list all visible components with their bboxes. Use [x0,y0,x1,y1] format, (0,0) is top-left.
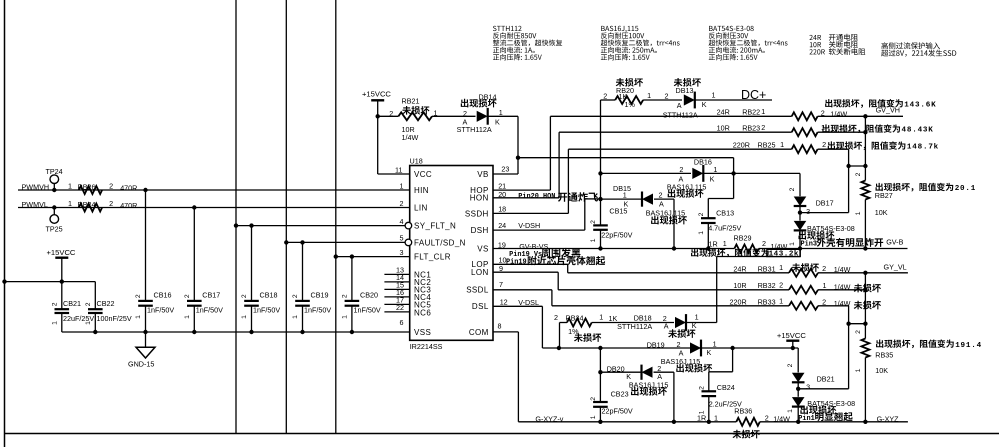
svg-text:5: 5 [400,234,404,243]
wire VS GV-B row [493,248,734,250]
svg-text:STTH112A: STTH112A [457,125,492,134]
svg-text:1: 1 [590,238,597,242]
svg-text:+15VCC: +15VCC [362,90,391,99]
svg-text:1: 1 [400,181,404,190]
svg-text:1: 1 [855,368,862,372]
svg-text:1: 1 [823,281,827,290]
svg-text:2: 2 [590,397,597,401]
svg-text:COM: COM [469,328,489,337]
capacitor CB24 2.2uF/25V branch [732,348,734,372]
resistor RB36 1R 1/4W [736,418,760,426]
bubble pin5 active low [405,239,412,246]
node DB16 cathode junction [731,171,735,175]
svg-text:CB24: CB24 [717,383,735,392]
resistor RB20 1K 1% [601,99,616,101]
svg-text:1/4W: 1/4W [834,283,851,292]
svg-text:470R: 470R [120,183,137,192]
svg-text:CB13: CB13 [716,208,734,217]
svg-text:2: 2 [822,264,826,273]
svg-text:CB20: CB20 [360,291,378,300]
wire HON to RB23 [493,197,559,199]
svg-text:191.4: 191.4 [955,342,982,350]
label RB22 damaged 143.6K [825,99,832,107]
svg-text:1: 1 [135,315,142,319]
svg-text:LON: LON [471,268,489,277]
capacitor CB17 1nF/50V [193,208,195,301]
svg-text:RB25: RB25 [758,141,776,150]
svg-text:1: 1 [499,108,503,117]
node GY_VL junction [863,271,867,275]
svg-text:10R: 10R [717,124,730,133]
svg-text:22: 22 [396,303,404,312]
svg-text:2: 2 [389,109,393,118]
diode DB20 BAS16J,115 [600,371,641,373]
wire DB20 anode down [673,372,675,422]
svg-text:DC+: DC+ [741,88,766,102]
svg-text:1nF/50V: 1nF/50V [253,305,280,314]
svg-text:10K: 10K [875,208,888,217]
svg-text:1nF/50V: 1nF/50V [147,305,174,314]
svg-text:1: 1 [780,140,784,149]
resistor RB21 10R 1/4W [378,115,399,117]
resistor RB23 10R 1/4W [792,128,818,136]
wire +15VCC rail [5,281,96,283]
capacitor CB13 4.7uF/25V branch [733,173,735,198]
wire vertical bus FLT_CLR (to page edge) [335,0,337,434]
svg-text:2: 2 [135,294,142,298]
svg-text:1: 1 [713,165,717,174]
label RB31 not damaged [792,263,801,272]
svg-text:RB33: RB33 [758,297,776,306]
svg-text:CB23: CB23 [611,390,629,399]
wire G-XYZ-v row [518,421,736,423]
svg-text:RB27: RB27 [875,191,893,200]
svg-text:CB19: CB19 [311,291,329,300]
svg-text:GND-15: GND-15 [128,359,154,368]
svg-text:22pF/50V: 22pF/50V [601,231,632,240]
resistor RB25 220R 1/4W [792,145,818,153]
box around 143.2k [767,249,801,256]
label DB19 damaged [676,364,684,373]
label RB33 not damaged [854,301,863,310]
power +15VCC (top) [371,99,384,101]
wire DB14 cathode down to VB node [517,116,519,174]
svg-text:1: 1 [623,190,627,199]
svg-text:2: 2 [292,294,299,298]
svg-text:+15VCC: +15VCC [777,331,806,340]
svg-text:1: 1 [85,321,92,325]
label RB36 not damaged [732,430,741,439]
svg-text:RB24: RB24 [78,200,96,209]
svg-text:48.43K: 48.43K [902,127,934,135]
label RB20 not damaged [616,78,625,87]
svg-text:CB15: CB15 [609,207,627,216]
svg-text:LIN: LIN [414,203,428,212]
svg-text:1: 1 [68,181,72,190]
svg-text:2: 2 [241,294,248,298]
diode DB13 STTH112A [684,94,695,105]
svg-text:1: 1 [723,239,727,248]
svg-text:23: 23 [501,165,509,174]
power +15VCC (low side) [786,340,799,342]
svg-text:2: 2 [463,109,467,118]
svg-text:RB29: RB29 [734,234,752,243]
svg-text:1/4W: 1/4W [834,265,851,274]
svg-text:V-DSL: V-DSL [518,298,539,307]
border bottom bus line [5,433,999,435]
svg-text:2: 2 [342,294,349,298]
svg-text:2: 2 [603,92,607,101]
svg-text:10K: 10K [875,366,888,375]
svg-text:4.7uF/25V: 4.7uF/25V [708,223,741,232]
label DB14 damaged [461,99,469,108]
svg-text:143.6K: 143.6K [904,101,936,109]
svg-text:CB16: CB16 [154,291,172,300]
net GV_VH [865,115,903,117]
wire VSS ground rail [62,331,410,333]
note column STTH112 description [493,26,497,31]
node GV_VH junction [863,114,867,118]
svg-text:1: 1 [855,211,862,215]
svg-text:FAULT/SD_N: FAULT/SD_N [414,238,466,247]
svg-text:1: 1 [241,315,248,319]
node VCC junction [376,114,380,118]
svg-text:CB18: CB18 [260,291,278,300]
svg-text:SY_FLT_N: SY_FLT_N [414,222,456,231]
ground GND-15 [145,332,147,347]
svg-text:1: 1 [68,199,72,208]
capacitor CB22 100nF/25V [94,282,96,310]
svg-text:K: K [495,118,500,127]
node HIN filter junction [143,188,147,192]
svg-text:1: 1 [342,315,349,319]
note column BAT54S-E3-08 description [709,26,713,31]
svg-text:18: 18 [498,205,506,214]
svg-text:1nF/50V: 1nF/50V [304,305,331,314]
svg-text:SSDL: SSDL [466,286,489,295]
svg-text:1/4W: 1/4W [773,415,790,424]
capacitor CB16 1nF/50V [145,190,147,301]
net GY_VL [865,272,908,274]
svg-text:2: 2 [590,220,597,224]
svg-text:1: 1 [599,313,603,322]
wire PWMVL to LIN [18,207,410,209]
diode DB15 BAS16J,115 [601,198,643,200]
svg-text:RB31: RB31 [758,265,776,274]
wire DB17 pin3 to bridge [800,212,849,214]
label RB27 damaged 20.1 [876,183,883,191]
label DB13 not damaged [674,78,683,87]
svg-text:1: 1 [779,263,783,272]
wire VB row to DB16 branch [518,157,734,159]
svg-text:2: 2 [665,92,669,101]
svg-text:1: 1 [789,242,796,246]
svg-text:2: 2 [789,187,796,191]
svg-text:2: 2 [109,181,113,190]
svg-text:V-DSH: V-DSH [518,221,540,230]
op-amp U18 IR2214SS gate driver IC body [410,166,493,341]
svg-text:A: A [664,322,669,331]
svg-text:3: 3 [806,207,810,216]
wire DSH node vertical [600,100,602,225]
svg-text:STTH112A: STTH112A [617,322,652,331]
svg-text:G-XYZ: G-XYZ [877,414,900,423]
wire HOP to RB22 [493,189,550,191]
svg-text:1: 1 [292,315,299,319]
svg-text:2: 2 [779,281,783,290]
svg-text:1nF/50V: 1nF/50V [354,305,381,314]
svg-text:2: 2 [52,302,59,306]
svg-text:1: 1 [714,413,718,422]
wire SSDH to RB25 [493,212,568,214]
resistor RB27 10K [861,181,869,200]
power +15VCC (left) [55,257,68,259]
svg-text:Pin19: Pin19 [506,259,527,267]
svg-text:K: K [702,100,707,109]
capacitor CB19 1nF/50V [300,240,304,244]
svg-text:RB21: RB21 [402,97,420,106]
resistor RB22 24R 1/4W [792,112,818,120]
wire GV-B row right [800,248,908,250]
svg-text:DB20: DB20 [607,365,625,374]
svg-text:RB32: RB32 [758,281,776,290]
svg-text:100nF/25V: 100nF/25V [97,314,132,323]
svg-text:SSDH: SSDH [465,209,489,218]
svg-text:2: 2 [765,413,769,422]
svg-text:220R: 220R [730,297,747,306]
svg-text:24: 24 [498,221,506,230]
svg-text:DB13: DB13 [676,86,694,95]
wire DB21 pin3 to A' [798,388,848,390]
label DB20 damaged [631,387,639,396]
svg-text:U18: U18 [410,157,423,166]
svg-text:148.7k: 148.7k [907,144,939,152]
svg-text:20.1: 20.1 [955,185,976,193]
node RB32 junction [863,288,867,292]
wire LON staircase [493,271,558,273]
diode DB19 BAS16J,115 [690,342,701,353]
note gate resistor roles [809,35,812,40]
svg-text:NC6: NC6 [414,308,431,317]
svg-text:1R: 1R [709,240,718,249]
svg-text:470R: 470R [120,201,137,210]
label DB17 damaged [798,231,806,240]
label DB16 damaged [668,189,676,198]
svg-text:GV-B-VS: GV-B-VS [519,242,548,251]
svg-text:STTH112A: STTH112A [663,111,698,120]
svg-text:2: 2 [822,140,826,149]
svg-text:143.2k: 143.2k [769,251,799,259]
svg-text:DB17: DB17 [816,199,834,208]
diode DB16 BAS16J,115 [601,172,692,174]
svg-text:2: 2 [698,212,705,216]
svg-text:3: 3 [400,248,404,257]
svg-text:VCC: VCC [414,170,432,179]
svg-text:CB22: CB22 [97,299,115,308]
wire DSH staircase [493,229,585,231]
svg-text:DB19: DB19 [647,341,665,350]
svg-text:RB36: RB36 [734,407,752,416]
svg-text:GV-B: GV-B [886,238,903,247]
svg-text:24R: 24R [733,265,746,274]
svg-text:2: 2 [787,363,794,367]
capacitor CB15 22pF/50V [593,224,608,226]
svg-text:RB23: RB23 [742,124,760,133]
svg-text:1: 1 [647,91,651,100]
wire DB15 anode down to VS row [673,199,675,248]
resistor RB26 470R [79,186,102,194]
svg-text:2: 2 [554,313,558,322]
wire G-XYZ row right [798,421,908,423]
resistor RB29 1R 1/4W [734,245,758,253]
svg-text:12: 12 [500,297,508,306]
svg-text:2: 2 [855,172,862,176]
svg-text:2: 2 [855,330,862,334]
svg-text:Pin19 Vs: Pin19 Vs [509,251,542,259]
svg-text:Pin20 HON: Pin20 HON [518,193,555,201]
capacitor CB20 1nF/50V [350,254,354,258]
svg-text:DSH: DSH [471,226,489,235]
svg-text:1/4W: 1/4W [830,110,847,119]
wire COM down to G-XYZ-v [493,331,518,333]
label RB32 not damaged [854,284,863,293]
wire SSDL staircase [493,289,552,291]
svg-text:2: 2 [822,297,826,306]
svg-text:RB35: RB35 [875,351,893,360]
diode DB17 BAT54S-E3-08 dual [799,173,801,196]
svg-text:CB17: CB17 [202,291,220,300]
capacitor CB23 22pF/50V branch [599,348,601,402]
svg-text:DSL: DSL [472,302,489,311]
svg-text:K: K [710,174,715,183]
note column BAS16J,115 description [601,26,605,31]
svg-text:CB21: CB21 [63,299,81,308]
svg-text:1: 1 [761,107,765,116]
svg-text:1: 1 [779,296,783,305]
svg-text:IR2214SS: IR2214SS [410,342,443,351]
resistor RB32 10R 1/4W [789,286,818,294]
svg-text:Pin3: Pin3 [801,241,818,249]
svg-text:RB26: RB26 [78,182,96,191]
svg-text:2: 2 [698,386,705,390]
wire DB19 supply row [542,347,798,349]
svg-text:RB34: RB34 [566,314,584,323]
svg-text:2: 2 [400,199,404,208]
svg-text:TP25: TP25 [46,224,63,233]
svg-text:2: 2 [85,302,92,306]
label RB21 not damaged [402,106,411,115]
wire RB25 to bridge [848,149,850,212]
test point TP24 [50,175,59,184]
label DB18 not damaged [668,329,677,338]
svg-text:1R: 1R [697,414,706,423]
wire SY_FLT_N from bus to pin 4 [234,223,238,227]
svg-text:1nF/50V: 1nF/50V [196,305,223,314]
svg-text:FLT_CLR: FLT_CLR [414,253,451,262]
wire U18 VB pin [493,173,518,175]
label DB15 damaged [651,216,659,225]
svg-text:GV_VH: GV_VH [876,105,900,114]
svg-text:HIN: HIN [414,186,429,195]
svg-text:11: 11 [395,165,402,174]
svg-text:1: 1 [695,313,699,322]
label RB29 damaged 143.2k [691,249,698,257]
wire VCC node down to U18 VCC pin [377,116,379,174]
label RB23 damaged 48.43K [822,124,829,132]
capacitor CB18 1nF/50V [249,223,253,227]
svg-text:1: 1 [590,415,597,419]
resistor RB33 220R 1/4W [789,302,818,310]
wire RB33 to bridge A' [848,306,850,389]
label RB34 not damaged [574,333,583,342]
svg-text:2: 2 [109,199,113,208]
border left edge [4,0,6,447]
svg-text:1%: 1% [625,100,636,109]
wire FAULT/SD_N from bus to pin 5 [284,240,288,244]
diode DB18 STTH112A [675,317,686,328]
svg-text:3: 3 [806,383,810,392]
svg-text:1/4W: 1/4W [402,133,419,142]
note high-side overcurrent [881,42,887,49]
node VB junction [516,156,520,160]
resistor RB35 10K [861,339,869,358]
svg-text:A: A [659,199,664,208]
test point TP25 [50,215,59,224]
svg-text:2: 2 [821,108,825,117]
label RB25 damaged 148.7k [828,141,835,149]
svg-text:DB21: DB21 [817,374,835,383]
svg-text:2: 2 [659,190,663,199]
svg-text:VSS: VSS [414,328,431,337]
wire DB18 cathode return to GV-B [799,249,801,257]
svg-text:1: 1 [787,409,794,413]
svg-text:+15VCC: +15VCC [47,248,76,257]
svg-text:1: 1 [712,90,716,99]
label DB21 damaged [800,406,808,415]
svg-text:GY_VL: GY_VL [884,262,907,271]
svg-text:22pF/50V: 22pF/50V [602,407,633,416]
wire LOP staircase [493,263,568,265]
svg-text:VS: VS [477,244,488,253]
svg-text:6: 6 [400,318,404,327]
wire vertical bus SY_FLT_N (to page edge) [235,0,237,434]
svg-text:TP24: TP24 [46,167,63,176]
svg-text:VB: VB [477,170,488,179]
wire DB16 cathode to DB17 [734,172,800,174]
wire vertical bus FAULT/SD_N (to page edge) [285,0,287,434]
svg-text:24R: 24R [717,108,730,117]
diode DB21 BAT54S-E3-08 dual [797,348,799,372]
svg-text:HON: HON [470,194,489,203]
node RB23 GV_VH junction [863,130,867,134]
wire FLT_CLR from bus to pin 3 [334,254,338,258]
wire DSL staircase to V-DSL [493,305,542,307]
svg-text:DB16: DB16 [694,158,712,167]
svg-text:8: 8 [498,321,502,330]
svg-text:2: 2 [762,239,766,248]
svg-text:7: 7 [499,280,503,289]
svg-text:1: 1 [52,321,59,325]
svg-text:A: A [677,101,682,110]
svg-text:1: 1 [184,315,191,319]
wire PWMVH to HIN [18,189,410,191]
resistor RB31 24R 1/4W [789,269,818,277]
svg-text:10R: 10R [733,281,746,290]
svg-text:220R: 220R [733,141,750,150]
svg-text:2: 2 [679,165,683,174]
resistor RB34 1K 1% [559,323,561,349]
node LIN filter junction [192,205,196,209]
